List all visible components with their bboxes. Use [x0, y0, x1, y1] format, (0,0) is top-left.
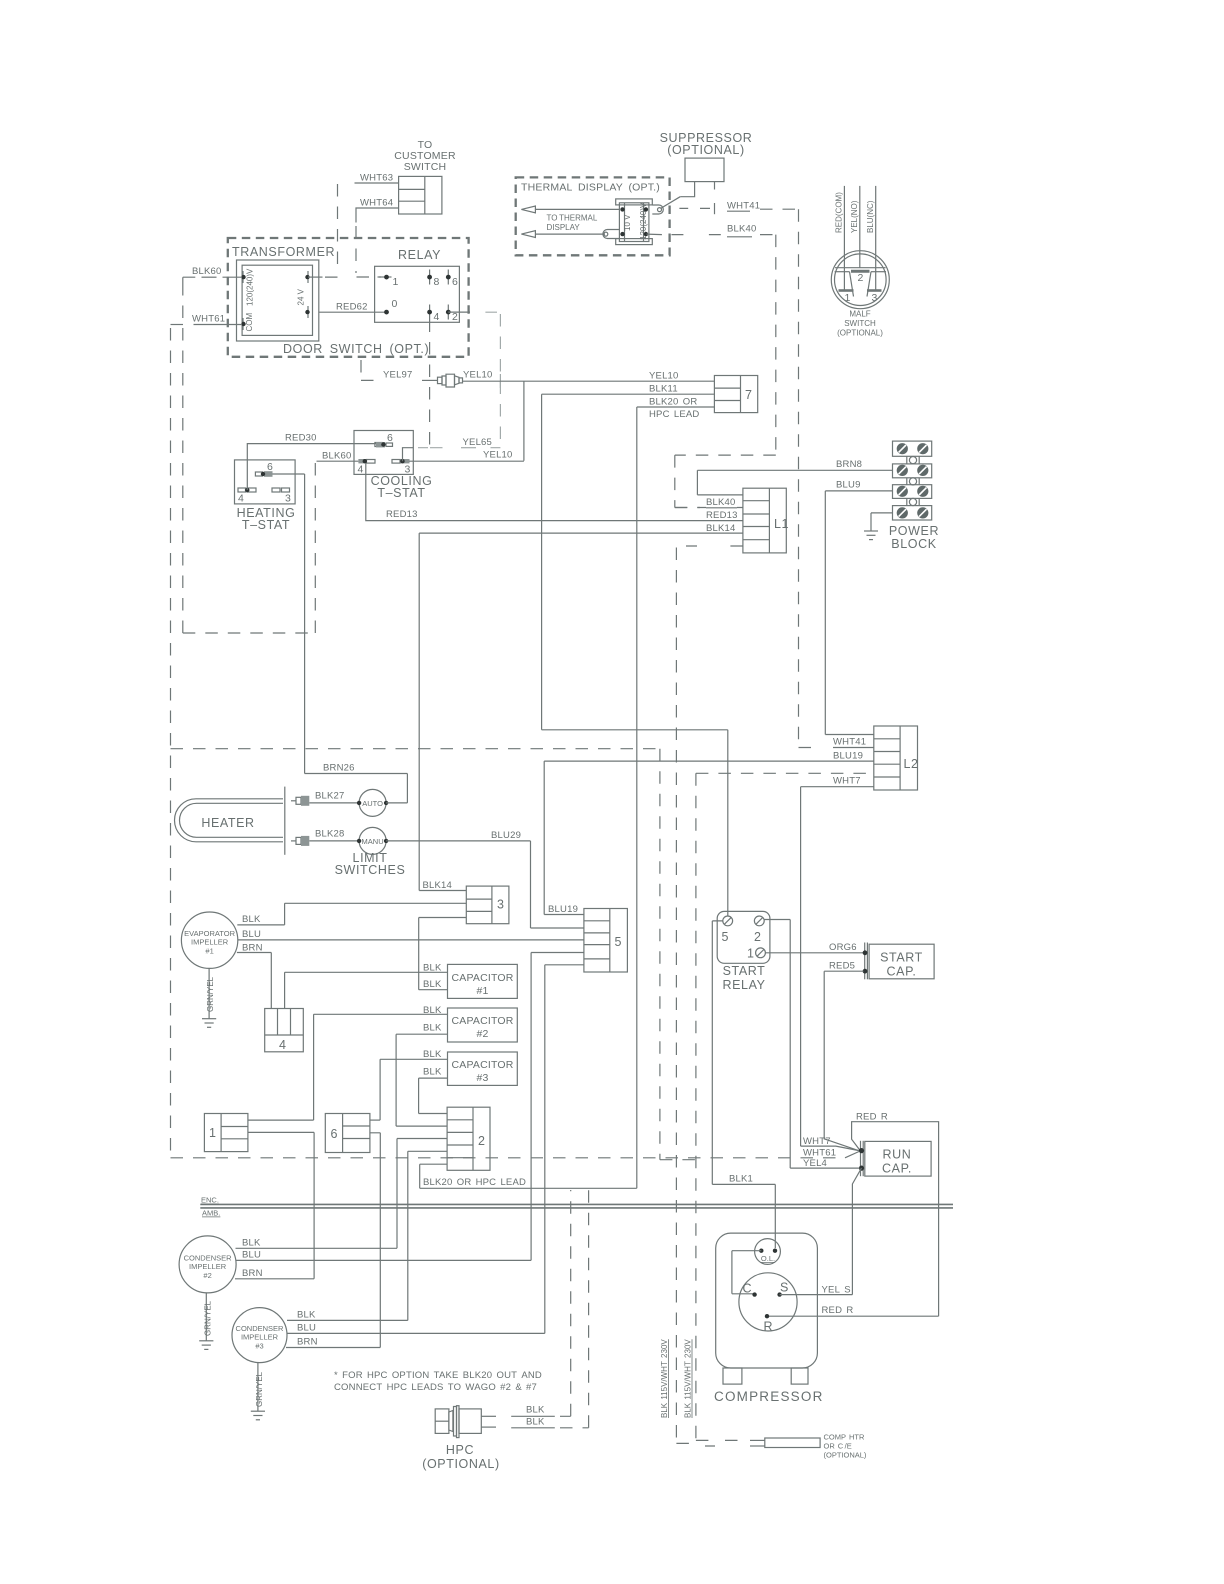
relay pin 2 [446, 305, 458, 324]
svg-text:CAP.: CAP. [882, 1162, 912, 1176]
svg-text:YEL S: YEL S [822, 1285, 851, 1296]
svg-text:ENC.: ENC. [201, 1196, 219, 1205]
capacitor C3 box [448, 1052, 518, 1085]
capacitor C2 box [448, 1008, 518, 1042]
malf switch wire YEL(NO) [859, 186, 861, 268]
wire wago6 cell1 stub [370, 1119, 380, 1121]
svg-text:4: 4 [358, 464, 364, 476]
wire YEL4 into run cap [790, 1167, 859, 1169]
malf switch pin labels [844, 272, 877, 304]
svg-text:ORG6: ORG6 [829, 942, 857, 953]
wire YEL65 underline [461, 447, 476, 449]
wire BLK cap3 upper from wago6 cell1 [380, 1059, 447, 1120]
svg-text:HPC: HPC [446, 1443, 474, 1457]
svg-text:BLK28: BLK28 [315, 829, 345, 840]
label COOLING T-STAT [371, 474, 433, 500]
wire BLK60 underline [202, 276, 217, 278]
terminal S [777, 1281, 789, 1297]
thermal transformer ear left-bottom [603, 230, 620, 239]
terminal C [743, 1282, 757, 1297]
svg-text:COM: COM [245, 313, 254, 332]
suppressor right lead [714, 182, 716, 190]
connector wago 7 [714, 376, 757, 413]
svg-text:BLK: BLK [526, 1417, 545, 1428]
wire BLU9 power block to L2 riser [825, 491, 893, 735]
svg-text:3: 3 [871, 292, 877, 304]
start relay screw 1 [747, 947, 765, 961]
wire BLU29 from MANU to wago5 [386, 841, 584, 928]
wire BLK impeller3 [287, 1319, 408, 1321]
svg-text:CAPACITOR: CAPACITOR [451, 972, 513, 984]
wire WHT61 dashed left stub [171, 324, 189, 326]
svg-text:(OPTIONAL): (OPTIONAL) [837, 329, 883, 338]
wire relay pin 2 out to right [448, 311, 470, 313]
svg-text:BRN: BRN [242, 1268, 263, 1279]
comp htr element [765, 1438, 820, 1448]
svg-text:BLU: BLU [297, 1323, 316, 1334]
wire WHT41 underline [727, 210, 750, 212]
svg-text:YEL10: YEL10 [649, 371, 679, 382]
svg-text:5: 5 [615, 935, 623, 949]
wire BRN8 from L1 top cell to power block [697, 470, 893, 495]
svg-text:BRN: BRN [297, 1337, 318, 1348]
label POWER BLOCK [889, 524, 939, 551]
svg-text:COMPRESSOR: COMPRESSOR [714, 1389, 824, 1404]
wire BLK40 dashed into L1 [675, 507, 743, 509]
malf switch terminal 3 bar [867, 289, 882, 292]
start capacitor bracket [865, 943, 868, 980]
wire BLK60 big dashed loop (left rectangle) [183, 283, 315, 633]
svg-text:BLK40: BLK40 [706, 497, 736, 508]
svg-text:WHT41: WHT41 [727, 201, 760, 212]
svg-text:6: 6 [387, 432, 393, 444]
svg-text:BLK: BLK [242, 1238, 261, 1249]
svg-text:#1: #1 [476, 985, 488, 997]
svg-text:(OPTIONAL): (OPTIONAL) [667, 143, 745, 157]
motor evaporator impeller #1 [181, 912, 237, 968]
wire WHT63 dashed drop to transformer 24V [323, 184, 338, 277]
wire ORG6 start relay 1 to start cap [765, 952, 863, 954]
svg-text:CONNECT HPC LEADS TO WAGO: CONNECT HPC LEADS TO WAGO #2 & #7 [334, 1382, 537, 1393]
svg-text:BLOCK: BLOCK [891, 537, 936, 551]
wire YEL97 to bullet connector [422, 379, 437, 381]
malf switch contact 2 bar [851, 270, 870, 273]
svg-text:(OPTIONAL): (OPTIONAL) [422, 1457, 500, 1471]
svg-text:BLK: BLK [423, 1067, 442, 1078]
connector L2 [874, 726, 919, 790]
HPC lead upper [481, 1415, 496, 1417]
svg-text:10 V: 10 V [623, 214, 632, 231]
svg-text:2: 2 [478, 1134, 486, 1148]
svg-text:BLU29: BLU29 [491, 830, 521, 841]
wire WHT64 dashed drop to relay pin1 [356, 226, 381, 277]
svg-text:RELAY: RELAY [722, 978, 765, 992]
ground symbol power block [864, 531, 878, 540]
relay pin 0 [384, 298, 397, 315]
start capacitor box [869, 944, 934, 979]
svg-text:THERMAL DISPLAY (OPT.): THERMAL DISPLAY (OPT.) [521, 182, 660, 194]
label TO THERMAL DISPLAY [547, 214, 598, 233]
svg-text:DOOR SWITCH (OPT.): DOOR SWITCH (OPT.) [283, 342, 429, 356]
wire OL to C terminal [732, 1251, 761, 1294]
wire BLU19 long horizontal to L2 [544, 760, 874, 762]
cooling t-stat terminal 4 [358, 459, 376, 476]
label WHT41 [727, 201, 760, 212]
label HEATING T-STAT [237, 506, 296, 532]
wire YEL10 bullet to wago7 [463, 380, 715, 382]
limit switch AUTO [357, 789, 388, 816]
wire RED5 start cap to run cap [824, 971, 863, 1150]
malf switch trapezoid [850, 272, 872, 297]
svg-text:TRANSFORMER: TRANSFORMER [232, 245, 335, 259]
svg-text:GRN/YEL: GRN/YEL [203, 1300, 212, 1336]
svg-text:CAP.: CAP. [887, 965, 917, 979]
wire WHT41 into L2 [833, 747, 874, 749]
svg-text:IMPELLER: IMPELLER [189, 1262, 227, 1271]
svg-text:BLK: BLK [242, 914, 261, 925]
wire start relay 2 to YEL4 riser [764, 920, 791, 1169]
wire BLK hpc upper segment [511, 1415, 555, 1417]
wire BLK40 diagonal from thermal transformer [647, 233, 662, 236]
wire BLK cap2 upper long [314, 1014, 448, 1120]
svg-text:L2: L2 [904, 757, 919, 771]
power block row 4 [893, 506, 932, 520]
heating t-stat box [235, 460, 296, 504]
wire WHT41 dashed [679, 207, 798, 210]
wire L2 cell4 dashed drop [695, 773, 697, 1440]
ground impeller1 [202, 1019, 216, 1028]
svg-text:YEL10: YEL10 [483, 450, 513, 461]
wire BLK impeller2 [236, 1247, 398, 1249]
cooling t-stat terminal 6 [375, 432, 393, 447]
wire BLK40 underline [727, 236, 752, 238]
heating t-stat terminal 3 [272, 488, 291, 505]
svg-text:AUTO: AUTO [362, 799, 383, 808]
wire wago1 cell2 to riser down [248, 1132, 314, 1278]
wire L1 bottom cell dashed (to comp htr) [676, 546, 743, 1443]
svg-text:2: 2 [857, 272, 863, 284]
ground impeller3 [251, 1411, 265, 1420]
suppressor left lead [680, 182, 694, 197]
relay pin 6 [446, 270, 458, 289]
transformer terminal left bottom [241, 318, 245, 330]
motor condenser impeller #2 [179, 1236, 236, 1293]
svg-text:BLK60: BLK60 [322, 451, 352, 462]
run cap terminal dots [859, 1148, 864, 1171]
power block link circle 1 [907, 456, 919, 464]
wire comp htr dashed corner left [676, 1443, 715, 1446]
wire BLK28 to MANU switch [309, 840, 359, 842]
suppressor right lead tick across WHT41 [714, 203, 716, 214]
start cap terminal dots [863, 950, 868, 973]
svg-text:3: 3 [285, 493, 291, 505]
wire GRN/YEL impeller1 ground lead [208, 968, 210, 1018]
svg-text:RED30: RED30 [285, 433, 317, 444]
overload O.L. circle [755, 1239, 781, 1265]
wire BLK11 to start relay 5 [542, 730, 728, 916]
wire long dashed enclosure boundary horizontal [171, 748, 660, 750]
wire wago2 cell3 to impeller2 BLK riser [397, 1139, 447, 1249]
svg-text:MALF: MALF [849, 310, 870, 319]
wire YEL65 tick crossing YEL10 [499, 374, 501, 388]
svg-text:MANU: MANU [362, 837, 384, 846]
svg-text:RED13: RED13 [706, 510, 738, 521]
svg-text:1: 1 [393, 276, 399, 288]
compressor foot left [723, 1368, 742, 1384]
svg-text:7: 7 [745, 388, 753, 402]
transformer T1 outer box [237, 260, 319, 341]
transformer T1 inner box [242, 265, 312, 335]
wire BLK40 underline [706, 507, 737, 509]
wire thermal transformer to suppressor diagonal [661, 197, 681, 209]
svg-text:SWITCH: SWITCH [404, 161, 447, 173]
svg-text:C: C [743, 1282, 753, 1296]
wire WHT61 dashed into run cap [171, 1157, 846, 1159]
svg-text:R: R [764, 1320, 774, 1334]
wire BLK60 dashed left corner [183, 277, 201, 283]
limit switch MANU [357, 827, 388, 854]
svg-text:OR C /E: OR C /E [824, 1442, 852, 1451]
svg-text:RED R: RED R [856, 1112, 888, 1123]
svg-text:WHT61: WHT61 [803, 1148, 836, 1159]
svg-text:BLK1: BLK1 [729, 1174, 753, 1185]
power block row 1 [893, 441, 932, 456]
svg-text:WHT64: WHT64 [360, 198, 393, 209]
svg-text:#1: #1 [205, 947, 213, 956]
compressor terminal circle [739, 1273, 797, 1331]
svg-text:2: 2 [754, 930, 762, 944]
wire BLK impeller1 to wago3 [237, 903, 466, 925]
svg-text:YEL97: YEL97 [383, 370, 413, 381]
wire YEL97 dashed drop from door box [361, 360, 377, 380]
svg-text:#3: #3 [476, 1072, 488, 1084]
svg-text:DISPLAY: DISPLAY [547, 223, 581, 232]
label MALF SWITCH (OPTIONAL) [837, 310, 883, 338]
svg-text:6: 6 [267, 461, 273, 473]
svg-text:HEATER: HEATER [201, 816, 254, 830]
connector wago 6 [325, 1114, 370, 1153]
svg-text:POWER: POWER [889, 524, 939, 538]
heater terminal bar [284, 787, 286, 855]
connector HPC pressure switch [435, 1406, 481, 1438]
suppressor box [685, 158, 724, 182]
relay pin 8 [427, 270, 439, 289]
svg-text:BLK60: BLK60 [192, 266, 222, 277]
wire wago1 cell1 to riser [248, 1119, 314, 1121]
svg-text:WHT63: WHT63 [360, 173, 393, 184]
connector wago 1 [204, 1114, 248, 1152]
compressor foot right [791, 1368, 808, 1384]
label BLK20 OR HPC LEAD [649, 397, 699, 421]
connector wago 3 [466, 886, 509, 924]
wire WHT63 [355, 182, 399, 184]
svg-text:BLK: BLK [526, 1405, 545, 1416]
svg-text:4: 4 [434, 311, 440, 323]
svg-text:T–STAT: T–STAT [377, 486, 425, 500]
svg-text:RED62: RED62 [336, 302, 368, 313]
wire WHT64 [356, 208, 399, 223]
wire YEL S from S terminal [780, 1168, 862, 1295]
wire BLK cap2 lower to wago2 cell2 [396, 1034, 447, 1126]
relay pin 4 [427, 305, 439, 324]
svg-text:BLK11: BLK11 [649, 384, 678, 395]
svg-text:AMB.: AMB. [202, 1209, 220, 1218]
svg-text:RED(COM): RED(COM) [835, 192, 844, 233]
svg-text:GRN/YEL: GRN/YEL [255, 1371, 264, 1407]
label TO CUSTOMER SWITCH [394, 139, 456, 173]
wire HPC lower lead dashed riser [560, 1190, 589, 1428]
svg-text:1: 1 [209, 1126, 217, 1140]
power block link circle 2 [907, 478, 919, 485]
svg-text:BLK: BLK [423, 979, 442, 990]
capacitor C1 box [448, 964, 518, 998]
svg-text:BRN8: BRN8 [836, 459, 862, 470]
wire BRN impeller2 [235, 1278, 314, 1280]
connector L1 [743, 488, 789, 553]
wire RED62 transformer 24V to relay pin 0 [319, 311, 385, 313]
svg-text:#2: #2 [476, 1028, 488, 1040]
wire BLU impeller3 [287, 1332, 545, 1334]
connector wago 2 [447, 1107, 490, 1170]
wire heating6 to riser [273, 473, 305, 475]
wire BLK14 into wago3 top cell [419, 890, 466, 892]
svg-text:BLK: BLK [423, 1023, 442, 1034]
svg-text:2: 2 [452, 311, 458, 323]
wire YEL65 dashed horizontal [418, 447, 448, 449]
run capacitor box [865, 1141, 931, 1176]
svg-text:IMPELLER: IMPELLER [191, 938, 229, 947]
thermal transformer T2 body [616, 199, 653, 245]
svg-text:TO THERMAL: TO THERMAL [547, 214, 598, 223]
svg-text:WHT7: WHT7 [803, 1136, 831, 1147]
connector wago 5 [584, 909, 628, 973]
wire wago3 cell3 to capacitor1 lower [419, 918, 467, 990]
heating t-stat terminal 6 [255, 461, 273, 477]
malf switch wire RED(COM) [843, 186, 845, 291]
wire L2 cell4 dashed [696, 772, 874, 774]
wire RED R run cap loop to compressor R [769, 1122, 939, 1317]
wire wago5 cell4 drop [531, 953, 584, 1261]
wire WHT61 diagonal to run cap dot [845, 1152, 859, 1158]
svg-text:WHT7: WHT7 [833, 776, 861, 787]
start relay box [717, 911, 770, 963]
svg-text:BLU: BLU [242, 1250, 261, 1261]
wire GRN/YEL impeller3 ground lead [257, 1363, 259, 1412]
heater terminal connector BLK28 [291, 836, 309, 846]
wire power block ground lead [871, 513, 893, 531]
ground impeller2 [199, 1341, 213, 1350]
svg-text:6: 6 [452, 276, 458, 288]
wire BLU impeller1 to wago5 [238, 939, 584, 941]
malf switch wire BLU(NC) [875, 186, 877, 291]
cooling t-stat terminal 3 [392, 459, 411, 476]
svg-text:5: 5 [722, 930, 730, 944]
wire WHT7 from L2 [801, 787, 874, 1146]
svg-text:HPC LEAD: HPC LEAD [649, 409, 699, 420]
svg-text:IMPELLER: IMPELLER [241, 1333, 279, 1342]
wire WHT41 dashed vertical drop [799, 209, 815, 747]
svg-text:O.L.: O.L. [761, 1254, 775, 1263]
svg-text:BLK40: BLK40 [727, 224, 757, 235]
run capacitor bracket [861, 1141, 864, 1176]
svg-text:1: 1 [844, 292, 850, 304]
svg-text:BRN26: BRN26 [323, 763, 355, 774]
wire BLU19 wago5 to L2 riser [544, 761, 584, 914]
wire wago6 cell2 to impeller3 BRN riser [370, 1133, 380, 1348]
wire comp htr dashed corner right [696, 1439, 740, 1441]
wire BLK40 dashed [672, 234, 776, 236]
svg-text:BLK27: BLK27 [315, 791, 345, 802]
wire BRN impeller1 to wago4 [237, 953, 271, 1009]
svg-text:BLK14: BLK14 [423, 880, 453, 891]
enclosure boundary double line [200, 1204, 953, 1208]
wire BLU impeller2 [236, 1259, 531, 1261]
wire BLK14 into L1 [419, 533, 743, 890]
svg-text:BLK 115V/WHT 230V: BLK 115V/WHT 230V [684, 1339, 693, 1418]
wire cooling terminal3 riser to YEL65 [403, 448, 414, 462]
label START RELAY [722, 964, 765, 992]
svg-text:BLU9: BLU9 [836, 480, 861, 491]
wire BLK hpc lower segment [511, 1427, 555, 1429]
svg-text:SWITCHES: SWITCHES [335, 863, 406, 877]
svg-text:RUN: RUN [883, 1148, 912, 1162]
svg-text:CAPACITOR: CAPACITOR [451, 1015, 513, 1027]
wire heating6 riser down to BRN26 [304, 474, 306, 774]
terminal R [764, 1314, 774, 1334]
thermal display dashed box [516, 177, 670, 255]
motor condenser impeller #3 [232, 1308, 287, 1363]
heating t-stat terminal 4 [238, 488, 256, 505]
svg-text:BLU(NC): BLU(NC) [866, 200, 875, 233]
wire BLK cap3 lower to wago2 cell1 [419, 1078, 448, 1113]
svg-text:120(240)V: 120(240)V [246, 268, 255, 306]
start relay screw 5 [722, 916, 733, 944]
note text HPC option [334, 1370, 542, 1393]
arrow to thermal display top [521, 206, 619, 213]
wire BRN impeller3 [286, 1347, 380, 1349]
label LIMIT SWITCHES [335, 851, 406, 877]
svg-text:(OPTIONAL): (OPTIONAL) [824, 1451, 867, 1460]
arrow to thermal display bottom [521, 231, 605, 238]
svg-text:BLU: BLU [242, 929, 261, 940]
comp htr leads [750, 1440, 765, 1446]
svg-text:CAPACITOR: CAPACITOR [451, 1059, 513, 1071]
wire BLK20 into wago7 [637, 407, 715, 1188]
svg-text:BLK: BLK [297, 1310, 316, 1321]
power block link circle 3 [907, 498, 919, 505]
power block row 2 [893, 464, 932, 478]
wire BLK1 from start relay 5 [712, 921, 775, 1248]
label HPC (OPTIONAL) [422, 1443, 500, 1471]
svg-text:8: 8 [434, 276, 440, 288]
wire WHT61 dashed long drop [170, 328, 172, 1158]
svg-text:3: 3 [497, 898, 505, 912]
wire wago2 cell4 to impeller3 BLK riser [408, 1151, 447, 1320]
svg-text:YEL(NO): YEL(NO) [850, 200, 859, 233]
transformer terminal right bottom (24V) [305, 306, 309, 318]
cooling t-stat box [354, 431, 413, 475]
svg-text:0: 0 [392, 298, 398, 310]
wire RED30 heating4 to cooling6 [247, 444, 383, 490]
svg-text:WHT61: WHT61 [192, 314, 225, 325]
svg-text:BLU19: BLU19 [548, 904, 578, 915]
svg-text:#3: #3 [255, 1342, 263, 1351]
wire WHT61 transformer lead [194, 324, 243, 326]
wire YEL65 light dashed from pin2 riser [485, 312, 500, 448]
svg-text:BLK 115V/WHT 230V: BLK 115V/WHT 230V [660, 1339, 669, 1418]
transformer terminal right top [305, 271, 322, 283]
svg-text:GRN/YEL: GRN/YEL [206, 976, 215, 1012]
